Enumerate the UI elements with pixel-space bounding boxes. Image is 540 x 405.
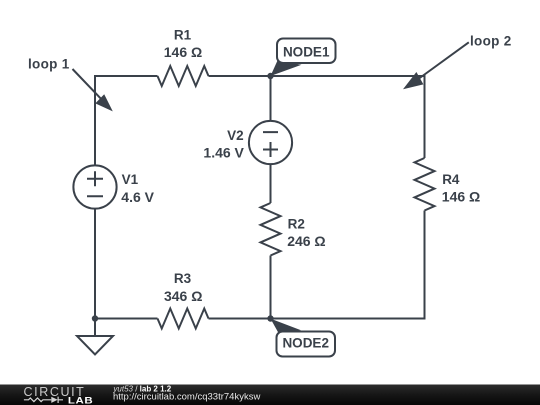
wire bottom rail left (ground junction to R3) xyxy=(95,318,158,320)
wire R2 to NODE2 xyxy=(270,256,272,319)
voltage source V1 xyxy=(73,165,116,208)
svg-text:246 Ω: 246 Ω xyxy=(287,233,325,249)
resistor R2 xyxy=(261,203,281,256)
junction node at NODE2 xyxy=(267,315,273,321)
wire V2 to R2 xyxy=(270,164,272,203)
svg-text:R3: R3 xyxy=(174,271,192,286)
node label NODE2 xyxy=(271,319,336,357)
svg-text:V2: V2 xyxy=(227,128,244,143)
svg-text:346 Ω: 346 Ω xyxy=(164,288,202,304)
svg-text:146 Ω: 146 Ω xyxy=(164,44,202,60)
svg-text:146 Ω: 146 Ω xyxy=(442,189,480,205)
wire top rail right and right rail upper (R1 through NODE1 around top-right corner down to R4) xyxy=(209,76,425,158)
loop 1 arrow xyxy=(73,69,113,111)
resistor R3 xyxy=(158,309,209,329)
node label NODE1 xyxy=(271,39,336,77)
svg-text:NODE2: NODE2 xyxy=(282,335,329,350)
resistor R1 xyxy=(158,66,209,86)
wire top rail left and left rail upper (R1 around top-left corner down to V1) xyxy=(95,76,158,166)
junction node at NODE1 xyxy=(267,73,273,79)
wire ground stub xyxy=(94,319,96,337)
svg-text:loop 1: loop 1 xyxy=(28,57,70,72)
loop 2 arrow xyxy=(403,42,469,89)
wire middle drop (NODE1 to V2) xyxy=(270,76,272,121)
svg-text:http://circuitlab.com/cq33tr74: http://circuitlab.com/cq33tr74kyksw xyxy=(113,392,260,403)
svg-text:loop 2: loop 2 xyxy=(470,34,512,49)
svg-text:NODE1: NODE1 xyxy=(283,44,330,59)
svg-text:LAB: LAB xyxy=(68,396,94,405)
voltage source V2 xyxy=(249,121,292,164)
svg-text:V1: V1 xyxy=(122,172,139,187)
footer bar xyxy=(0,385,540,405)
svg-text:R4: R4 xyxy=(442,172,460,187)
ground xyxy=(77,336,113,355)
CircuitLab logo resistor-diode squiggle xyxy=(24,397,63,403)
svg-text:4.6 V: 4.6 V xyxy=(121,189,154,205)
svg-text:1.46 V: 1.46 V xyxy=(203,144,244,160)
svg-text:R2: R2 xyxy=(288,217,305,232)
svg-text:R1: R1 xyxy=(174,28,192,43)
resistor R4 xyxy=(415,158,435,211)
junction node at ground xyxy=(92,315,98,321)
wire right rail lower and bottom rail right (R4 around bottom-right corner through NODE2 to R3) xyxy=(209,211,425,319)
wire left rail lower (V1 to ground junction) xyxy=(94,209,96,319)
